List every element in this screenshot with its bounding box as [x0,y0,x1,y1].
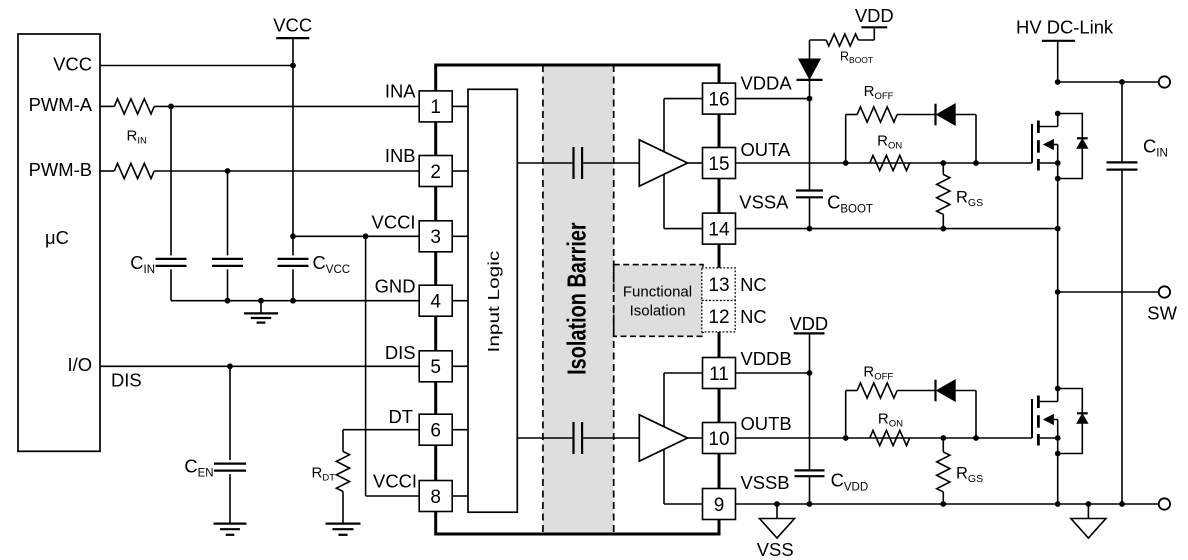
node RGS-VSSA junction [940,226,946,232]
wire DIS [100,365,419,367]
resistor RDT [336,452,349,492]
wire Q1 source to SW [1057,179,1059,293]
label VDDB [741,348,792,369]
node Q1 (high-side MOSFET) drain [1055,111,1061,117]
gate driver IC outline [436,65,719,534]
wire PWM-B to INB [154,170,419,172]
svg-text:4: 4 [430,292,441,313]
svg-text:RON: RON [877,133,902,152]
svg-text:CVDD: CVDD [831,470,869,494]
op-amp driver A triangle [639,140,687,186]
wire PWM-A to INA [154,105,419,107]
svg-text:CBOOT: CBOOT [827,192,873,216]
node RGS-B top junction [940,435,946,441]
capacitor CVCC [278,259,309,266]
node Q2-source rail junction [1055,501,1061,507]
wire DIS down to CEN [229,366,231,460]
label PWM-A [29,94,93,115]
svg-text:13: 13 [708,275,729,296]
label CVDD [831,470,869,494]
ground symbol (CEN) [214,524,247,535]
node HV-drain junction [1055,79,1061,85]
wire VSSA rail [736,228,1058,230]
wire CIN right bottom [1121,171,1123,504]
pin box 4 [419,285,452,316]
wire DT down [342,430,344,452]
wire driver B supply vertical [663,373,665,504]
node RGS-A top junction [940,160,946,166]
pin box 8 [419,481,452,512]
wire driver A out [688,162,703,164]
wire VCCI vertical to pin8 [366,236,420,496]
ground arrow VSS [760,504,795,538]
wire PWM-B to resistor [100,170,114,172]
svg-text:5: 5 [430,357,441,378]
wire RDT to ground [342,491,344,523]
label GND (pin4) [375,276,416,297]
VDD supply symbol (B) [789,313,828,373]
svg-text:OUTA: OUTA [741,139,791,160]
label INA [385,80,416,101]
capacitor C2 (input) [212,259,243,266]
wire OUTA [736,162,1033,164]
resistor RIN (PWM-B) [114,163,154,178]
wire PWM-A to resistor [100,105,114,107]
wire logic to capA [517,162,572,164]
node DIS junction [227,363,233,369]
pin box 10 [703,423,736,454]
svg-text:3: 3 [430,227,441,248]
node CVCC-GND junction [290,298,296,304]
wire VSSB/power-ground rail [736,503,1159,505]
wire VDD to RBOOT [858,39,874,41]
transistor Q2 (low-side MOSFET) [1032,389,1088,454]
svg-text:RDT: RDT [311,465,335,484]
resistor RGS (B) [937,438,950,504]
svg-text:6: 6 [430,421,441,442]
svg-text:10: 10 [708,429,729,450]
resistor RGS (A) [937,163,950,229]
wire VDDB out [736,372,810,374]
svg-text:2: 2 [430,162,441,183]
wire CIN right top [1121,82,1123,161]
label NC (pin12) [740,306,767,327]
label Functional Isolation [623,284,692,320]
resistor ROFF (B) [857,383,897,398]
resistor RBOOT [826,34,858,46]
svg-text:15: 15 [708,154,729,175]
wire capB to driver B [583,437,639,439]
wire VDDB internal [664,372,703,374]
svg-text:CIN: CIN [130,252,155,276]
svg-text:1: 1 [430,97,441,118]
svg-text:ROFF: ROFF [863,364,893,383]
svg-text:SW: SW [1147,303,1177,324]
op-amp driver B triangle [639,415,687,461]
svg-text:NC: NC [740,274,767,295]
wire SW [1058,291,1159,293]
isolation barrier left dashed line [542,65,544,534]
label DIS (pin5) [385,342,416,363]
wire OUTB [736,437,1033,439]
HV DC-Link supply symbol [1016,17,1114,83]
node VSSA-SW junction [1055,226,1061,232]
label RON (A) [877,133,902,152]
wire C2 bottom [227,269,229,300]
node PWM-A junction [168,104,174,110]
label Isolation Barrier [562,222,591,375]
node CIN-rail junction [1119,501,1125,507]
label VDDA [741,72,793,93]
resistor RON (B) [870,430,910,445]
svg-text:DIS: DIS [111,370,142,391]
svg-text:VCCI: VCCI [372,211,416,232]
wire pin stub to input logic [452,429,468,431]
wire CVDD to rail [809,477,811,504]
capacitor CIN (DC-link) [1107,162,1138,169]
wire ROFF branch up [846,115,858,164]
wire HV rail [1058,81,1159,83]
wire VSSB internal [664,503,703,505]
label RGS (A) [956,189,983,209]
svg-text:VSSA: VSSA [739,192,789,213]
svg-text:9: 9 [714,495,725,516]
svg-text:Isolation: Isolation [630,303,686,320]
label OUTA [741,139,791,160]
label INB [385,145,416,166]
svg-text:Isolation Barrier: Isolation Barrier [562,222,591,375]
label VSS [757,539,794,560]
pin box 12 dotted [702,301,735,332]
node diode-B junction [973,435,979,441]
wire CVCC top [292,236,294,255]
wire CVCC bottom [292,269,294,300]
node C2-GND junction [225,298,231,304]
label CIN [130,252,155,276]
wire GND rail [171,300,419,302]
wire diode A down [955,115,976,164]
pin box 1 [419,91,452,122]
svg-text:8: 8 [430,487,441,508]
node gnd-arrow rail junction [1086,501,1092,507]
svg-text:VDDB: VDDB [741,348,792,369]
label NC (pin13) [740,274,767,295]
node Q1 (high-side MOSFET) body-diode join [1055,176,1061,182]
wire VCCI [293,235,419,237]
label VSSA [739,192,789,213]
node VCCI-CVCC junction [290,233,296,239]
wire SW to Q2 drain [1057,292,1059,389]
label VSSB [741,472,790,493]
svg-text:Functional: Functional [623,284,692,301]
svg-text:OUTB: OUTB [741,413,792,434]
pin box 11 [703,358,736,389]
wire VDDA internal [664,98,703,100]
wire VSSA internal [664,228,703,230]
wire pin stub to input logic [452,170,468,172]
label CEN [184,456,213,480]
node Q2 (low-side MOSFET) body-diode join [1055,451,1061,457]
wire driver A supply vertical [663,99,665,229]
VDD supply symbol (boot) [855,5,894,40]
pin box 2 [419,156,452,187]
wire CEN to ground [229,474,231,523]
pin box 9 [703,489,736,520]
label VCC (uC pin) [53,53,92,74]
wire diode B down [955,391,976,439]
label DIS (net) [111,370,142,391]
node CBOOT-VSSA junction [807,226,813,232]
wire pin stub to input logic [452,235,468,237]
svg-text:CIN: CIN [1143,136,1168,160]
label CBOOT [827,192,873,216]
svg-text:RBOOT: RBOOT [840,50,873,66]
diode DBOOT [797,59,823,80]
resistor RON (A) [870,155,910,170]
wire VCC from uC [100,65,293,67]
isolation barrier right dashed line [613,65,615,534]
svg-text:NC: NC [740,306,767,327]
svg-text:VSS: VSS [757,539,794,560]
node Q2 (low-side MOSFET) drain [1055,386,1061,392]
ground symbol (logic) [244,301,278,323]
label RIN [127,128,147,147]
node PWM-B junction [225,168,231,174]
svg-text:I/O: I/O [67,354,92,375]
svg-text:CEN: CEN [184,456,213,480]
label RDT [311,465,335,484]
svg-text:VCC: VCC [53,53,92,74]
node diode-A junction [973,160,979,166]
functional isolation dashed border [614,265,703,337]
wire ROFF-B branch up [846,391,858,439]
svg-text:VSSB: VSSB [741,472,790,493]
node VDDA junction [807,96,813,102]
label RBOOT [840,50,873,66]
wire pin stub to input logic [452,495,468,497]
wire RBOOT to diode [810,40,827,59]
terminal HV DC-Link [1159,76,1170,87]
capacitor CBOOT [796,191,823,198]
wire driver B out [688,437,703,439]
resistor RIN (PWM-A) [114,99,154,114]
capacitor CIN (input) [156,259,187,266]
svg-text:RGS: RGS [956,465,983,485]
wire VCC vertical [292,66,294,237]
diode DOFF (B) [936,380,956,402]
label PWM-B [29,159,92,180]
ground arrow (power) [1071,504,1106,538]
svg-text:12: 12 [708,307,729,328]
node OUTB branch junction [843,435,849,441]
label ROFF (B) [863,364,893,383]
node VCCI branch junction [363,233,369,239]
label Input Logic [484,251,502,353]
node VDDB junction [807,370,813,376]
svg-text:VCCI: VCCI [373,471,417,492]
label CIN (DC-link) [1143,136,1168,160]
svg-text:Input Logic: Input Logic [484,251,502,353]
label RGS (B) [956,465,983,485]
microcontroller box uC [18,34,100,451]
svg-text:11: 11 [709,364,729,385]
resistor ROFF (A) [857,107,897,122]
svg-text:ROFF: ROFF [864,83,894,102]
diode DOFF (A) [936,104,956,126]
capacitor (isolation A) [574,147,583,179]
node VCC-rail junction [290,63,296,69]
svg-text:VDDA: VDDA [741,72,793,93]
wire pin stub to input logic [452,300,468,302]
wire logic to capB [517,437,572,439]
svg-text:CVCC: CVCC [313,252,351,276]
wire pin stub to input logic [452,365,468,367]
svg-text:PWM-A: PWM-A [29,94,93,115]
svg-text:VCC: VCC [273,15,312,36]
svg-text:INA: INA [385,80,416,101]
wire DT [343,429,419,431]
node gnd-sym junction [258,298,264,304]
label DT (pin6) [388,406,413,427]
node Q1 (high-side MOSFET) source [1055,160,1061,166]
pin box 13 dotted [702,268,735,301]
input logic box [468,89,517,512]
svg-text:HV DC-Link: HV DC-Link [1016,17,1114,38]
wire ROFF to diode A [897,114,934,116]
label OUTB [741,413,792,434]
svg-text:INB: INB [385,145,416,166]
node HV-CIN junction [1119,79,1125,85]
wire PWM-A junction down [170,106,172,255]
wire VDD-B vertical [809,373,811,469]
terminal power ground [1159,498,1170,509]
pin box 14 [703,213,736,244]
label VCCI (pin8) [373,471,417,492]
functional isolation shaded box [614,265,703,337]
svg-text:μC: μC [45,227,69,248]
label I/O [67,354,92,375]
label ROFF (A) [864,83,894,102]
label SW [1147,303,1177,324]
label CVCC [313,252,351,276]
node SW junction [1055,289,1061,295]
wire ROFF to diode B [897,390,934,392]
label RON (B) [878,411,903,430]
svg-text:RGS: RGS [956,189,983,209]
svg-text:14: 14 [708,219,730,240]
svg-text:VDD: VDD [855,5,894,26]
label VCCI (pin3) [372,211,416,232]
svg-text:PWM-B: PWM-B [29,159,92,180]
node OUTA branch junction [843,160,849,166]
node CVDD-rail junction [807,501,813,507]
node RGS-B rail junction [940,501,946,507]
svg-text:RON: RON [878,411,903,430]
terminal SW [1159,286,1170,297]
wire Q2 source to rail [1057,454,1059,505]
node VSS junction [774,501,780,507]
svg-text:16: 16 [708,89,729,110]
pin box 16 [703,83,736,114]
transistor Q1 (high-side MOSFET) [1032,114,1088,179]
pin box 5 [419,351,452,382]
svg-text:DIS: DIS [385,342,416,363]
wire diode to VDDA [809,81,811,99]
wire CIN bottom [170,269,172,300]
capacitor CVDD [795,470,825,476]
node Q2 (low-side MOSFET) source [1055,435,1061,441]
ground symbol (RDT) [326,524,361,535]
IC isolation barrier shaded band [543,65,614,534]
svg-text:GND: GND [375,276,416,297]
svg-text:RIN: RIN [127,128,147,147]
capacitor CEN [214,464,246,471]
pin box 15 [703,148,736,179]
pin box 3 [419,221,452,252]
wire capA to driver A [583,162,639,164]
wire PWM-B junction down [227,171,229,255]
svg-text:VDD: VDD [789,313,828,334]
VCC supply symbol [273,15,312,66]
pin box 6 [419,414,452,445]
wire CBOOT to VSSA [809,198,811,228]
wire VDDA out [736,98,810,100]
wire pin stub to input logic [452,105,468,107]
svg-text:DT: DT [388,406,413,427]
capacitor (isolation B) [574,422,583,454]
wire bootstrap vertical [809,99,811,190]
label uC [45,227,69,248]
